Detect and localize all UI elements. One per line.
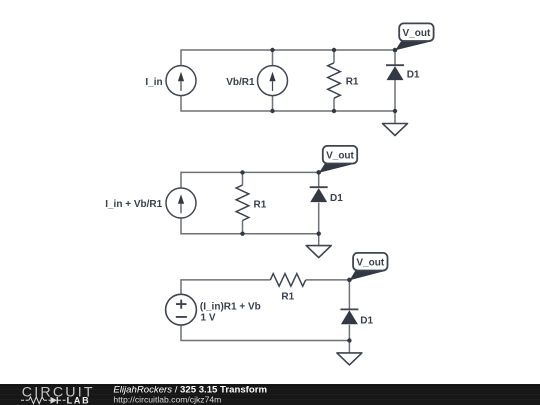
svg-text:I_in + Vb/R1: I_in + Vb/R1 [105, 199, 162, 210]
svg-text:R1: R1 [346, 77, 359, 88]
svg-text:R1: R1 [281, 292, 294, 303]
svg-text:I_in: I_in [145, 77, 162, 88]
svg-text:1 V: 1 V [201, 313, 216, 324]
svg-text:(I_in)R1 + Vb: (I_in)R1 + Vb [200, 302, 261, 313]
svg-text:LAB: LAB [67, 396, 91, 405]
svg-text:D1: D1 [407, 70, 420, 81]
svg-text:Vb/R1: Vb/R1 [226, 77, 255, 88]
svg-text:D1: D1 [330, 193, 343, 204]
svg-text:D1: D1 [360, 315, 373, 326]
svg-text:http://circuitlab.com/cjkz74m: http://circuitlab.com/cjkz74m [113, 395, 221, 405]
svg-text:R1: R1 [254, 199, 267, 210]
